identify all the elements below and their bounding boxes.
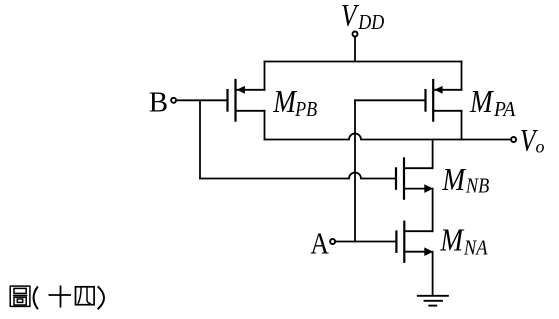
svg-text:PB: PB	[294, 99, 317, 122]
wire: M_NB drain up to output	[432, 140, 434, 169]
transistor M_NA (NMOS)	[396, 222, 433, 262]
transistor M_NB (NMOS)	[396, 158, 433, 198]
transistor M_PB (PMOS)	[228, 80, 265, 121]
svg-text:NA: NA	[463, 237, 488, 260]
ground	[418, 296, 448, 306]
wire: M_PA drain drop	[461, 111, 463, 140]
label M_NB	[441, 163, 489, 198]
node VDD terminal	[353, 32, 358, 37]
label figure caption 圖(十四)	[10, 286, 104, 310]
wire: rail left drop to M_PB source	[264, 62, 266, 90]
svg-text:DD: DD	[357, 12, 384, 35]
transistor M_PA (PMOS)	[426, 80, 462, 121]
svg-text:B: B	[149, 86, 168, 118]
svg-text:NB: NB	[465, 174, 489, 197]
wire: M_NB source to M_NA drain	[432, 189, 434, 232]
wire: output line Vo with hop over A	[265, 134, 511, 140]
node B terminal	[171, 98, 176, 103]
svg-text:V: V	[341, 0, 360, 34]
svg-text:M: M	[441, 163, 467, 197]
node Vo terminal	[511, 137, 516, 142]
label M_PB	[272, 85, 317, 122]
label M_NA	[439, 224, 488, 260]
wire: rail right drop to M_PA source	[461, 62, 463, 90]
wire: VDD rail	[265, 61, 462, 63]
label Vo	[520, 123, 545, 158]
svg-text:PA: PA	[493, 99, 516, 122]
svg-text:M: M	[469, 85, 495, 119]
wire: A input to M_NA gate	[336, 241, 395, 243]
svg-text:M: M	[439, 224, 465, 258]
wire: M_PB drain drop	[264, 111, 266, 140]
wire: M_NA source to ground	[432, 252, 434, 296]
wire: M_PA gate lead to node A vertical	[355, 99, 424, 101]
wire: B input to M_PB gate	[177, 99, 226, 101]
wire: B vertical branch	[199, 100, 201, 178]
svg-text:M: M	[272, 85, 298, 119]
wire: VDD stub	[354, 37, 356, 62]
label VDD	[341, 0, 384, 34]
wire: node A vertical	[354, 100, 356, 241]
svg-text:A: A	[310, 227, 329, 261]
svg-text:o: o	[536, 137, 545, 157]
wire: B to M_NB gate with hop over A	[200, 173, 395, 179]
label M_PA	[469, 85, 516, 121]
node A terminal	[330, 239, 335, 244]
